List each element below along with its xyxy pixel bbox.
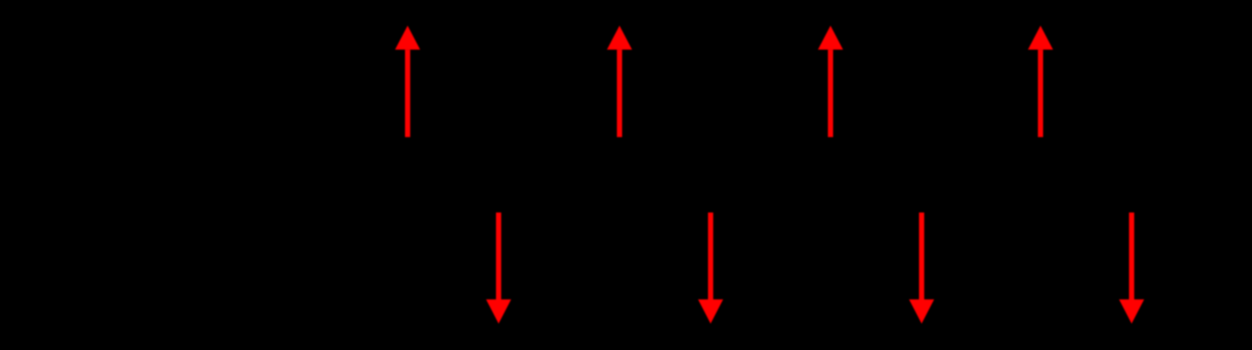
spin down arrow 4: [1119, 213, 1144, 324]
spin down arrow 3: [909, 213, 934, 324]
spin up arrow 4: [1028, 26, 1053, 138]
spin up arrow 1: [395, 26, 420, 138]
spin up arrow 2: [607, 26, 632, 138]
spin down arrow 2: [698, 213, 723, 324]
spin down arrow 1: [486, 213, 511, 324]
spin up arrow 3: [818, 26, 843, 138]
